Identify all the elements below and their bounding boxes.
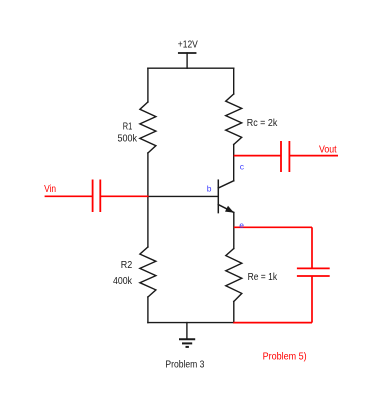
transistor Q1 xyxy=(218,180,234,212)
supply bar xyxy=(179,52,196,54)
svg-text:e: e xyxy=(239,220,244,230)
wire right branch upper xyxy=(233,68,235,94)
wire Vin left (red) xyxy=(45,195,93,197)
wire left branch lower xyxy=(147,297,149,323)
wire bypass vertical upper (red) xyxy=(311,227,313,268)
resistor Re xyxy=(226,249,242,302)
capacitor Ce bypass xyxy=(297,267,330,269)
wire top rail xyxy=(148,67,234,69)
svg-text:Rc = 2k: Rc = 2k xyxy=(247,117,278,129)
wire emitter to bypass (red) xyxy=(234,226,312,228)
svg-text:Vin: Vin xyxy=(44,183,56,195)
supply stem wire xyxy=(186,53,188,68)
svg-text:c: c xyxy=(240,162,245,172)
resistor Rc xyxy=(226,94,242,145)
wire bottom red rail xyxy=(233,322,312,324)
wire left branch upper xyxy=(147,68,149,102)
capacitor C2 output xyxy=(280,141,282,172)
wire base xyxy=(148,195,218,197)
wire right branch lower xyxy=(233,302,235,323)
resistor R1 xyxy=(140,102,156,153)
wire Vin right (red) xyxy=(100,195,148,197)
wire collector vertical xyxy=(233,145,235,181)
svg-text:Vout: Vout xyxy=(319,144,337,156)
capacitor C1 input xyxy=(92,180,94,213)
wire emitter vertical xyxy=(233,213,235,249)
svg-text:Problem 5): Problem 5) xyxy=(263,351,307,363)
wire Vout right (red) xyxy=(289,155,338,157)
svg-text:Re = 1k: Re = 1k xyxy=(248,271,278,283)
transistor emitter arrow xyxy=(225,206,234,213)
wire left branch middle xyxy=(147,153,149,247)
ground xyxy=(179,339,195,347)
svg-text:R2: R2 xyxy=(121,259,133,271)
svg-text:Problem 3: Problem 3 xyxy=(165,359,204,371)
svg-text:+12V: +12V xyxy=(178,39,198,51)
svg-text:400k: 400k xyxy=(113,275,133,287)
svg-text:R1: R1 xyxy=(123,120,133,132)
svg-text:500k: 500k xyxy=(118,133,138,145)
wire bypass vertical lower (red) xyxy=(311,276,313,323)
wire bottom rail xyxy=(148,322,234,324)
svg-text:b: b xyxy=(207,184,212,194)
resistor R2 xyxy=(140,247,156,297)
wire Vout left (red) xyxy=(234,155,281,157)
wire ground stem xyxy=(186,323,188,340)
